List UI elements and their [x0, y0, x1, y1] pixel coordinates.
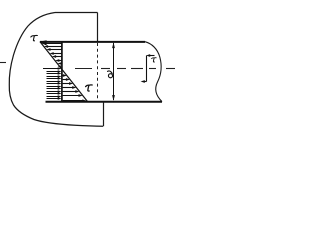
dimension line delta (vertical, double arrowheads): [112, 42, 115, 101]
label tau (top left, max stress): [31, 35, 38, 40]
strip bottom edge: [46, 101, 163, 103]
arrow: [58, 65, 61, 67]
bottom arrow left: [144, 81, 147, 83]
diagonal of linear stress distribution: [40, 42, 88, 102]
arrow: [47, 90, 62, 92]
arrow: [63, 94, 83, 97]
arrow: [47, 80, 62, 82]
label tau (lower, at diagonal): [86, 85, 93, 91]
vertical cut face above strip: [97, 13, 99, 42]
arrow: [47, 87, 62, 89]
strip top edge: [40, 41, 145, 43]
arrow: [63, 86, 77, 89]
arrow: [63, 74, 67, 77]
arrow: [44, 45, 62, 48]
vertical link: [146, 56, 148, 82]
body break-line blob outline: [9, 13, 103, 127]
arrow: [47, 85, 62, 87]
wavy break line at right end of strip: [145, 42, 162, 102]
top flat cut line of body: [55, 12, 98, 14]
arrow: [63, 90, 80, 93]
arrow: [63, 82, 74, 85]
arrow: [52, 55, 62, 58]
arrow: [47, 95, 62, 97]
arrow: [58, 62, 62, 65]
label tau (small, right symbol): [152, 58, 157, 62]
arrow: [47, 82, 62, 84]
label delta: [108, 71, 113, 78]
vertical cut face below strip: [103, 102, 105, 127]
arrow: [46, 48, 61, 51]
arrow: [47, 72, 62, 74]
arrow: [55, 59, 62, 62]
arrow: [47, 77, 62, 79]
arrow: [47, 70, 62, 72]
small dash at left image edge: [0, 62, 6, 64]
arrowhead at top-left apex (max tau, points left): [39, 40, 46, 45]
arrow on bottom edge: [63, 99, 87, 102]
vertical line of stress profile (cut plane): [61, 42, 63, 102]
arrow: [42, 42, 62, 45]
dash-dot horizontal centerline: [75, 68, 175, 70]
arrow: [50, 52, 62, 55]
arrow (longer, at mid line): [43, 67, 62, 69]
tau couple symbol at right: top arrow left: [141, 54, 155, 83]
arrow: [47, 97, 62, 99]
lower half arrows: point right, heads on diagonal: [63, 74, 87, 102]
dashed vertical centerline of cut: [97, 43, 99, 101]
upper half arrows: point left, heads on diagonal: [42, 42, 62, 68]
arrow: [47, 92, 62, 94]
uniform band of right-pointing arrows left of cut line (lower half): [43, 67, 62, 99]
arrow: [63, 78, 71, 81]
arrow: [47, 75, 62, 77]
